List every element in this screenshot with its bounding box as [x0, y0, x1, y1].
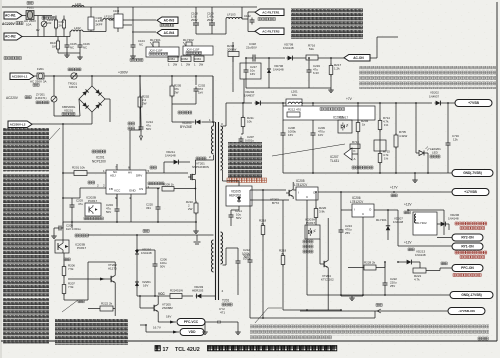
- node AC220V-L2: [8, 121, 32, 128]
- svg-text:TCL 42U2: TCL 42U2: [175, 347, 200, 353]
- capacitor C105: [66, 43, 68, 46]
- svg-text:10V: 10V: [318, 133, 323, 137]
- svg-text:50V: 50V: [106, 210, 111, 214]
- svg-text:R713: R713: [352, 140, 359, 144]
- svg-text:HV: HV: [128, 171, 132, 175]
- diagonal callout mid: [272, 144, 345, 156]
- wire vt203 base: [283, 199, 289, 201]
- svg-text:HER203: HER203: [192, 289, 204, 293]
- wire R208 down: [232, 57, 234, 93]
- node AC-ON: [344, 55, 370, 62]
- svg-text:16V: 16V: [143, 284, 148, 288]
- svg-text:C102: C102: [244, 14, 251, 18]
- svg-text:51k: 51k: [309, 47, 314, 51]
- svg-text:B772: B772: [272, 201, 279, 205]
- label subpower: [478, 337, 488, 340]
- svg-text:2KPF: 2KPF: [96, 22, 103, 26]
- svg-text:4.3kW: 4.3kW: [399, 134, 407, 138]
- svg-text:NC: NC: [139, 43, 143, 47]
- 17VSB paragraph: [250, 325, 489, 336]
- svg-text:2W: 2W: [186, 63, 191, 67]
- svg-text:R263: R263: [195, 57, 202, 61]
- svg-text:AC-FILTER2: AC-FILTER2: [262, 29, 280, 33]
- svg-text:2W: 2W: [174, 91, 179, 95]
- svg-text:ADJ: ADJ: [110, 174, 116, 178]
- svg-text:RLY301: RLY301: [150, 38, 161, 42]
- annotation block output rectifier: [228, 142, 262, 178]
- svg-text:AC220V: AC220V: [2, 22, 16, 26]
- svg-text:-17VSB-ON: -17VSB-ON: [458, 309, 475, 313]
- wire AC-ON to comparator: [370, 57, 377, 59]
- svg-text:1N4148: 1N4148: [141, 251, 152, 255]
- wire VT203 collector rail: [250, 189, 286, 191]
- ground R217: [330, 88, 332, 90]
- node AC-FILTER1: [255, 9, 284, 16]
- red note PFC: [453, 274, 481, 277]
- IC IC201 label: [92, 150, 106, 153]
- node AC-IN3: [132, 19, 156, 21]
- svg-text:RV: RV: [36, 28, 40, 32]
- transformer aux winding bottom left: [212, 240, 214, 272]
- wire +300V rail: [44, 75, 213, 77]
- svg-text:1N4148: 1N4148: [273, 68, 284, 72]
- svg-text:AC-IN1: AC-IN1: [5, 14, 16, 18]
- svg-text:1kV: 1kV: [198, 91, 203, 95]
- fuse F101: [27, 2, 33, 5]
- svg-text:10u: 10u: [292, 93, 297, 97]
- svg-text:NC: NC: [70, 46, 74, 50]
- node AC-IN4: [132, 31, 156, 33]
- svg-text:AC-IN3: AC-IN3: [164, 18, 175, 22]
- svg-text:PC817: PC817: [88, 199, 98, 203]
- svg-text:KTC3202: KTC3202: [321, 278, 334, 282]
- wire gnd bus -7V: [283, 172, 452, 174]
- ground EMI: [66, 53, 68, 55]
- annotation paragraph right mid: [359, 66, 496, 89]
- node AC-IN1: [4, 12, 22, 19]
- node AC220V-L1: [10, 73, 34, 80]
- svg-text:JQX-115F: JQX-115F: [149, 49, 163, 53]
- wire bottom rail 310: [283, 309, 341, 311]
- svg-text:10k: 10k: [247, 120, 252, 124]
- wire AC-IN2 rail: [22, 36, 70, 38]
- node PFC-ON: [452, 265, 483, 272]
- svg-text:+7V: +7V: [346, 97, 353, 101]
- zener VZ201: [136, 286, 138, 288]
- svg-text:R261: R261: [169, 57, 176, 61]
- svg-text:4.7k: 4.7k: [414, 278, 420, 282]
- svg-text:10D-9: 10D-9: [69, 85, 78, 89]
- wire mid EMI: [90, 31, 106, 33]
- pin2 FB wire: [88, 181, 95, 184]
- svg-text:VD201: VD201: [64, 109, 74, 113]
- diagonal callout PFC: [62, 300, 78, 312]
- transformer T201 core: [215, 122, 217, 300]
- relay RLY302 box: [413, 212, 437, 235]
- svg-text:2W: 2W: [173, 63, 178, 67]
- svg-text:PC817: PC817: [77, 246, 87, 250]
- svg-text:1k: 1k: [362, 123, 366, 127]
- node +17VSB: [452, 189, 489, 196]
- wire left vertical bus: [62, 124, 64, 228]
- VCC pin6 wire: [116, 194, 118, 207]
- svg-text:(14K471): (14K471): [35, 96, 47, 100]
- node GND(-17VSB): [450, 292, 493, 299]
- svg-text:51W: 51W: [177, 289, 183, 293]
- arrow into base: [68, 278, 108, 280]
- svg-text:SSP10N60S: SSP10N60S: [192, 165, 209, 169]
- frame bottom border: [1, 340, 497, 342]
- svg-text:RY2-ON: RY2-ON: [461, 236, 474, 240]
- bridge rectifier VD201: [79, 86, 105, 112]
- svg-text:50V: 50V: [236, 216, 241, 220]
- svg-text:RLY301: RLY301: [376, 218, 387, 222]
- node +7VSB: [455, 100, 492, 107]
- wire lower gnd rail right section: [246, 87, 331, 89]
- svg-text:PC817: PC817: [306, 221, 316, 225]
- annotation paragraph top: [291, 8, 363, 39]
- diagonal callout bottom mid: [255, 308, 268, 323]
- svg-text:1N4937: 1N4937: [244, 94, 255, 98]
- optocoupler IC202A body: [338, 120, 352, 133]
- varistor RV101: [42, 17, 55, 20]
- relay box JQX-115F 1: [146, 47, 179, 57]
- svg-text:16V: 16V: [288, 133, 293, 137]
- wire to VT202: [64, 258, 70, 261]
- svg-text:BYV26E: BYV26E: [180, 125, 192, 129]
- capacitor C106: [79, 43, 81, 46]
- svg-text:16V: 16V: [250, 72, 255, 76]
- EMI block right: [114, 14, 123, 28]
- svg-text:GND(-7VSB): GND(-7VSB): [463, 171, 482, 175]
- svg-text:RLY302: RLY302: [183, 38, 194, 42]
- svg-text:2W: 2W: [199, 63, 204, 67]
- capacitor C108: [195, 21, 197, 24]
- caption figure 17: [155, 346, 160, 351]
- capacitor CX1: [55, 18, 57, 20]
- svg-text:50V: 50V: [146, 127, 151, 131]
- resistor R221: [413, 268, 426, 273]
- svg-text:TL431: TL431: [330, 159, 339, 163]
- label anti-interference: [4, 57, 21, 60]
- svg-text:2A: 2A: [59, 24, 63, 28]
- wire right of T201: [223, 264, 227, 266]
- svg-text:LF103: LF103: [227, 13, 236, 17]
- svg-text:LF102: LF102: [104, 15, 113, 19]
- svg-text:2W: 2W: [188, 207, 193, 211]
- wire secondary to L201: [223, 125, 227, 127]
- red note RLY301: [455, 251, 487, 254]
- svg-text:+12V: +12V: [404, 203, 412, 207]
- svg-text:T201: T201: [222, 299, 229, 303]
- IC205 C pin down: [306, 200, 308, 295]
- transformer winding bottom right: [221, 232, 223, 264]
- red note RLY302: [455, 222, 487, 225]
- svg-text:L102: L102: [74, 26, 81, 30]
- wire aux branch: [137, 249, 155, 251]
- svg-text:18V: 18V: [166, 315, 171, 319]
- svg-text:A: A: [354, 157, 356, 161]
- svg-text:R228 2k: R228 2k: [364, 261, 376, 265]
- svg-text:NC: NC: [83, 46, 87, 50]
- svg-text:GND: GND: [129, 189, 137, 193]
- svg-text:PC817: PC817: [339, 116, 349, 120]
- svg-text:C103: C103: [113, 9, 120, 13]
- node AC-IN2: [4, 33, 22, 40]
- wire IC206 out: [374, 209, 398, 211]
- thermistor TR201: [68, 68, 81, 71]
- svg-text:100u: 100u: [243, 257, 250, 261]
- wire GND bus lower: [131, 221, 196, 223]
- svg-text:LED: LED: [432, 151, 439, 155]
- node RY2-ON: [452, 234, 483, 241]
- svg-text:VCC: VCC: [114, 189, 121, 193]
- svg-text:R262: R262: [182, 57, 189, 61]
- svg-text:200kW: 200kW: [227, 48, 237, 52]
- resistor R103: [57, 39, 59, 41]
- svg-text:L7812CV: L7812CV: [350, 200, 364, 204]
- pin 7 wire: [116, 164, 118, 170]
- svg-text:3.9k: 3.9k: [319, 210, 325, 214]
- svg-text:AC-IN2: AC-IN2: [5, 35, 16, 39]
- svg-text:1%: 1%: [384, 157, 389, 161]
- svg-text:R222 2k: R222 2k: [101, 302, 113, 306]
- svg-text:DRV: DRV: [136, 174, 142, 178]
- svg-text:AC 250V 3A: AC 250V 3A: [30, 80, 47, 84]
- resistors R261 R262 R263: [130, 59, 143, 62]
- ground at 7V bus: [414, 173, 416, 178]
- svg-text:GND(-17VSB): GND(-17VSB): [461, 293, 481, 297]
- svg-text:25V: 25V: [345, 231, 350, 235]
- svg-text:K: K: [354, 149, 356, 153]
- PFC-VCC paragraph: [55, 319, 128, 345]
- IC201 chip body: [106, 170, 146, 194]
- wire VCC aux rail: [88, 234, 214, 236]
- svg-text:12k: 12k: [453, 138, 458, 142]
- transformer primary winding: [212, 126, 214, 154]
- annotation left column: [3, 128, 49, 172]
- ground IC206: [341, 295, 363, 297]
- node -17VSB-ON: [300, 310, 448, 312]
- callout line left: [49, 128, 60, 140]
- svg-text:1%: 1%: [384, 123, 389, 127]
- svg-text:AC-IN4: AC-IN4: [164, 31, 175, 35]
- svg-text:F101: F101: [27, 6, 34, 10]
- pin 8 HV wire: [129, 130, 131, 170]
- wire -17 gnd rail: [307, 294, 450, 296]
- svg-text:1N4148: 1N4148: [165, 154, 176, 158]
- svg-text:7.5k: 7.5k: [68, 267, 74, 271]
- svg-text:471: 471: [220, 311, 225, 315]
- wire 300V drops: [139, 76, 141, 96]
- svg-text:R209 1k: R209 1k: [163, 183, 174, 187]
- svg-text:AC220V-L1: AC220V-L1: [12, 74, 28, 78]
- node GND(-7VSB): [452, 170, 493, 177]
- svg-text:2SD882: 2SD882: [162, 306, 173, 310]
- svg-text:VCC: VCC: [158, 292, 165, 296]
- svg-text:+7VSB: +7VSB: [468, 101, 479, 105]
- label optocoupler IC202A: [320, 108, 345, 111]
- svg-text:AC-ON: AC-ON: [353, 56, 364, 60]
- snubber box outline: [240, 63, 261, 79]
- capacitor C214 startup: [128, 122, 135, 125]
- svg-text:6.3V: 6.3V: [313, 71, 319, 75]
- svg-text:7.5k: 7.5k: [68, 285, 74, 289]
- svg-text:VDD: VDD: [189, 330, 197, 334]
- svg-text:+17VSB: +17VSB: [464, 190, 477, 194]
- node AC-FILTER2: [255, 28, 284, 35]
- svg-text:47u: 47u: [78, 202, 83, 206]
- svg-text:1N4148: 1N4148: [448, 217, 459, 221]
- svg-text:F201: F201: [37, 67, 44, 71]
- svg-text:1N4148: 1N4148: [283, 46, 294, 50]
- svg-text:250V: 250V: [207, 18, 214, 22]
- svg-text:NCP1200: NCP1200: [92, 160, 106, 164]
- capacitor C102: [251, 18, 253, 21]
- svg-text:16.7V: 16.7V: [153, 326, 161, 330]
- svg-text:RLY302: RLY302: [416, 221, 427, 225]
- wire bottom rail 318: [250, 317, 375, 319]
- svg-text:PFC-VCC: PFC-VCC: [184, 320, 199, 324]
- relay box JQX-115F 2: [183, 46, 213, 55]
- svg-text:R212 470: R212 470: [288, 108, 301, 112]
- wire primary top: [212, 76, 214, 122]
- svg-text:1.2k: 1.2k: [334, 67, 340, 71]
- box VD205: [226, 186, 252, 206]
- svg-text:2W: 2W: [142, 102, 147, 106]
- capacitor C205: [57, 227, 60, 229]
- wire top AC rail: [2, 6, 257, 8]
- red label secondary rectifier: [227, 178, 267, 183]
- svg-text:PFC-ON: PFC-ON: [461, 266, 474, 270]
- wire bottom EMI: [58, 52, 80, 54]
- box loop lower left: [87, 262, 89, 300]
- svg-text:1N4937: 1N4937: [429, 95, 440, 99]
- svg-text:17: 17: [163, 347, 169, 353]
- frame right border: [496, 2, 498, 341]
- svg-text:AC220V: AC220V: [6, 96, 19, 100]
- optocoupler IC203B: [55, 240, 69, 253]
- svg-text:250V: 250V: [191, 18, 198, 22]
- svg-text:AC-FILTER1: AC-FILTER1: [262, 10, 280, 14]
- capacitor C100 X2: [88, 17, 94, 30]
- svg-text:22u/50V: 22u/50V: [246, 46, 257, 50]
- wire base loop: [62, 228, 64, 240]
- svg-text:FB: FB: [109, 187, 113, 191]
- GND pin4 wire: [130, 194, 132, 222]
- resistor R102: [63, 18, 65, 20]
- label sampling circuit: [352, 166, 373, 169]
- svg-text:331: 331: [146, 206, 151, 210]
- svg-text:1kV 0.001u: 1kV 0.001u: [66, 227, 81, 231]
- node RY1-ON: [452, 243, 483, 250]
- wire CS: [148, 182, 164, 185]
- svg-text:1N4148: 1N4148: [393, 220, 404, 224]
- svg-text:1N4148: 1N4148: [415, 253, 426, 257]
- big output box: [283, 106, 375, 120]
- wire DRV to gate: [150, 166, 157, 169]
- svg-text:+17V: +17V: [390, 186, 398, 190]
- svg-text:50V: 50V: [160, 265, 165, 269]
- diode VD210: [136, 249, 138, 251]
- svg-text:A1270: A1270: [108, 267, 117, 271]
- svg-text:222: 222: [47, 21, 52, 25]
- svg-text:25V: 25V: [390, 284, 395, 288]
- 17VSB paragraph tail: [250, 336, 332, 341]
- svg-text:10A: 10A: [26, 23, 31, 27]
- switch MOSFET VT201: [196, 157, 206, 160]
- svg-text:HER203: HER203: [229, 194, 241, 198]
- svg-text:AC220V-L2: AC220V-L2: [10, 122, 26, 126]
- svg-text:R201 10k: R201 10k: [72, 166, 85, 170]
- svg-text:RY1-ON: RY1-ON: [461, 245, 474, 249]
- svg-text:+12V: +12V: [404, 241, 412, 245]
- svg-text:L7812CV: L7812CV: [294, 183, 308, 187]
- svg-text:CS: CS: [139, 187, 143, 191]
- svg-text:1M: 1M: [52, 45, 57, 49]
- svg-text:+300V: +300V: [118, 71, 129, 75]
- svg-text:JQX-115F: JQX-115F: [186, 48, 200, 52]
- capacitor C109: [211, 21, 213, 24]
- transformer secondary winding top: [221, 126, 223, 170]
